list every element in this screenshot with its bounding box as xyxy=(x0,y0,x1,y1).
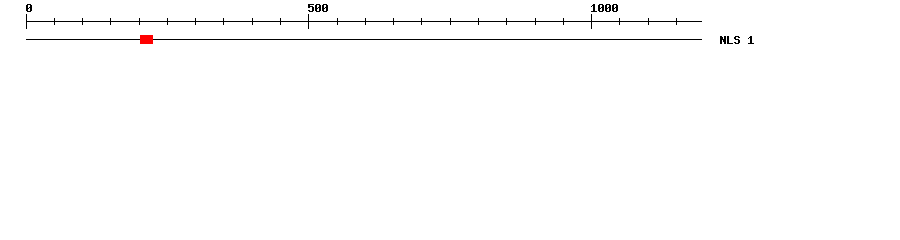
feature track line xyxy=(26,39,702,40)
minor tick 800 xyxy=(478,18,479,25)
minor tick 550 xyxy=(337,18,338,25)
minor tick 1050 xyxy=(619,18,620,25)
minor tick 400 xyxy=(252,18,253,25)
minor tick 350 xyxy=(223,18,224,25)
minor tick 700 xyxy=(421,18,422,25)
major tick 0 xyxy=(26,14,27,29)
minor tick 850 xyxy=(506,18,507,25)
major tick 1000 xyxy=(591,14,592,29)
minor tick 200 xyxy=(139,18,140,25)
minor tick 1150 xyxy=(676,18,677,25)
minor tick 950 xyxy=(563,18,564,25)
minor tick 750 xyxy=(450,18,451,25)
ruler label 500 xyxy=(308,4,328,12)
minor tick 900 xyxy=(535,18,536,25)
NLS feature box (red, aa ~202-224) xyxy=(140,35,153,44)
minor tick 650 xyxy=(393,18,394,25)
ruler label 1000 xyxy=(591,4,618,12)
minor tick 250 xyxy=(167,18,168,25)
minor tick 50 xyxy=(54,18,55,25)
minor tick 1100 xyxy=(648,18,649,25)
minor tick 150 xyxy=(110,18,111,25)
minor tick 450 xyxy=(280,18,281,25)
major tick 500 xyxy=(308,14,309,29)
background xyxy=(0,0,900,58)
minor tick 600 xyxy=(365,18,366,25)
ruler label 0 xyxy=(26,4,32,12)
minor tick 300 xyxy=(195,18,196,25)
feature label NLS 1 xyxy=(720,36,754,44)
ruler axis line (0-1195 aa scale) xyxy=(26,21,702,22)
minor tick 100 xyxy=(82,18,83,25)
